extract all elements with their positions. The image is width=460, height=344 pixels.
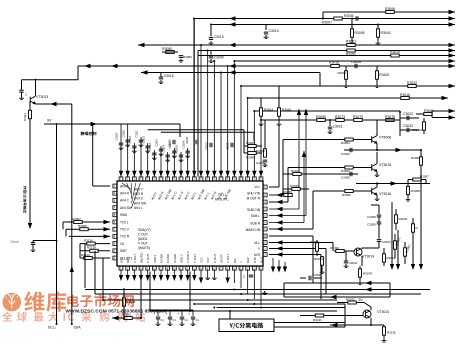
svg-text:TV2 R: TV2 R [120,235,130,239]
svg-text:R3060: R3060 [411,156,420,160]
resistor R3058 [407,186,410,194]
wire bus y98 [248,97,448,99]
pin top 14 [206,177,210,181]
ground under C3113 [145,149,150,153]
ground [209,41,214,45]
wire arrow into right pin y209 [276,207,283,211]
wire arrow into top pin 16 [219,171,223,177]
wire arrow 伴音 output [28,223,32,229]
wire [321,265,323,270]
svg-text:C3031: C3031 [349,261,358,265]
wire [244,145,262,147]
wire corner x78 [77,66,79,80]
resistor R3078 [359,269,362,277]
wire [278,86,280,108]
capacitor C3111 [139,140,143,142]
wire arrow TV2L [104,220,111,224]
wire arrow down bottom pin 12 [192,275,196,281]
resistor R3113 [84,257,92,260]
resistor R3008 [351,29,354,37]
junction [376,183,378,185]
wire fan leader [122,183,132,190]
wire top pin 4 vertical [140,137,142,177]
svg-text:9V: 9V [359,298,364,302]
wire VT3016 emitter [376,195,378,197]
junction [229,310,231,312]
svg-text:Y: Y [240,261,244,263]
ground under cap [19,96,24,100]
wire top pin 10 vertical [180,152,182,177]
wire [359,277,361,281]
wire arrow into top pin 15 [212,171,216,177]
pin top 8 [166,177,170,181]
svg-text:ADD 1: ADD 1 [180,254,184,263]
pin left 10 [113,249,117,253]
pin top 18 [232,177,236,181]
wire arrow down bottom pin 7 [159,275,163,281]
wire x80 [79,244,81,258]
wire right pin y215.5 [269,215,306,217]
svg-text:R3072: R3072 [346,297,355,301]
svg-text:M-L: M-L [233,258,237,263]
svg-text:C1: C1 [173,318,177,322]
resistor R3111 [29,110,32,118]
capacitor C3112 [152,153,156,155]
wire arrow [449,84,456,88]
svg-text:R3039: R3039 [290,184,299,188]
wire VT3015 emitter [376,171,378,173]
wire [269,186,279,188]
wire [278,126,280,187]
wire arrow [449,16,456,20]
svg-text:R3015: R3015 [282,108,291,112]
svg-text:VT3010: VT3010 [377,310,389,314]
junction [213,307,215,309]
junction [260,119,262,121]
wire [432,117,455,119]
svg-text:R3034: R3034 [387,256,396,260]
wire [399,111,401,136]
ground under C3117 [172,154,177,158]
svg-text:R3050: R3050 [342,193,351,197]
wire top pin 6 vertical [153,150,155,177]
svg-text:SDA: SDA [74,326,82,330]
ground [375,84,380,88]
resistor R3032 [408,85,416,88]
pin top 22 [259,177,263,181]
wire [160,73,162,78]
wire bus y61 [234,60,455,62]
wire bottom pin 11 stub [187,270,189,277]
wire arrow down x413 [411,264,415,270]
wire arrow 静噪控制 on rail [91,122,98,126]
junction [213,60,215,62]
wire [423,118,425,122]
ground [344,84,349,88]
wire vertical x306 [305,109,307,216]
svg-text:TV1 L: TV1 L [218,193,227,197]
svg-text:C3009: C3009 [214,56,224,60]
wire [162,51,178,53]
wire [325,249,327,295]
wire [432,111,455,114]
junction [193,303,195,305]
wire collect y297 [284,296,390,298]
pin bottom 5 [146,266,150,270]
wire arrow down bottom pin 10 [179,275,183,281]
wire [269,235,313,237]
pin top 9 [172,177,176,181]
wire bus y55 [198,55,455,57]
svg-text:SCL2: SCL2 [48,326,57,330]
svg-text:R3022: R3022 [291,169,300,173]
svg-text:R3036: R3036 [330,246,339,250]
wire [244,152,262,154]
pin bottom 1 [119,266,123,270]
wire [62,222,64,229]
svg-text:C3034: C3034 [382,240,391,244]
ground C30033 [31,248,36,252]
wire bottom pin 18 long [233,270,235,283]
svg-text:R3001: R3001 [346,40,356,44]
wire bottom pin 10 stub [180,270,182,277]
resistor R3036 [336,250,344,253]
junction [240,293,242,295]
pin bottom 20 [246,266,250,270]
resistor R3070 [354,119,362,122]
svg-text:C3112: C3112 [148,142,152,150]
svg-text:C3111: C3111 [135,130,139,138]
svg-text:VT3013: VT3013 [36,95,48,99]
pin bottom 15 [212,266,216,270]
wire arrow into top pin 5 [145,171,149,177]
resistor R3034 [383,254,386,262]
svg-text:C3013: C3013 [214,35,224,39]
capacitor C3017 [168,317,172,319]
wire top pin 16 vertical [220,73,222,177]
pin top 5 [146,177,150,181]
ground under C3119 [179,158,184,162]
wire [179,124,181,137]
junction [260,307,262,309]
wire VT3015 base line [288,167,372,169]
ground C3016 [156,322,161,326]
capacitor C3113 [145,146,149,148]
capacitor C3035 [350,172,352,176]
wire vertical x198 [197,51,199,177]
resistor R3050c [345,190,353,193]
svg-text:R3054: R3054 [310,240,319,244]
wire vertical x299 [298,109,300,209]
svg-text:SW7: SW7 [120,249,127,253]
junction [220,72,222,74]
junction [370,324,372,326]
pin left 5 [113,213,117,217]
pin right 4 [263,207,267,211]
junction [376,183,378,185]
wire arrow into top pin 13 [199,171,203,177]
ground under C3110 [159,152,164,156]
wire [319,73,321,87]
wire arrow [276,252,283,256]
wire [322,12,324,19]
wire C3019 lower [192,319,194,322]
svg-text:TV2 V: TV2 V [120,228,130,232]
wire bottom pin 19 long [240,270,242,288]
svg-text:TV2 L: TV2 L [120,220,129,224]
wire vertical x194 [193,19,195,177]
svg-text:C3113: C3113 [141,135,145,143]
pin top 2 [126,177,130,181]
junction [140,317,142,319]
wire [404,242,406,248]
wire C3018 [181,310,183,316]
svg-text:M-R: M-R [254,253,261,257]
svg-text:SUB R: SUB R [250,222,260,226]
junction [140,317,142,319]
ground [358,281,363,285]
wire loop left edge [283,283,285,297]
wire arrow [365,287,372,291]
wire [65,229,67,236]
svg-text:R3420: R3420 [379,73,389,77]
wire VT3013 collector [35,80,37,96]
wire top pin 1 vertical [120,124,122,177]
pin top 3 [132,177,136,181]
capacitor C3118 [119,143,123,145]
wire x92 down [92,124,94,186]
wire right pin y195 [269,194,283,196]
wire [21,80,23,90]
wire stub x279 [278,260,280,268]
junction [35,79,37,81]
resistor R3135 [383,327,386,335]
svg-text:C3115: C3115 [128,135,132,143]
wire out of Y/C box 2 [274,326,345,328]
wire bottom pin 1 stub [120,270,122,277]
wire arrow up x304 [302,151,306,157]
capacitor C3102 [231,143,233,147]
wire bottom pin 13 stub [200,270,202,279]
pin top 15 [212,177,216,181]
watermark logo 维库电子市场网 [3,291,167,314]
capacitor C3104 [173,140,175,144]
pin top 16 [219,177,223,181]
resistor R3061 [404,248,407,256]
wire 伴音 output line [29,119,31,224]
svg-text:V OUT: V OUT [133,254,137,263]
svg-text:R3070: R3070 [314,257,323,261]
pin left 4 [113,206,117,210]
pin left 8 [113,235,117,239]
junction SDA end [71,323,73,325]
svg-text:R3061: R3061 [405,243,412,253]
wire arrow into right pin y229 [276,227,283,231]
wire arrow TV2R [104,234,111,238]
junction [420,149,422,151]
svg-text:AV4 L: AV4 L [134,206,143,210]
wire top pin 20 vertical [247,98,249,177]
junction [227,65,229,67]
pin left 7 [113,227,117,231]
svg-text:C3050: C3050 [367,223,376,227]
svg-text:C3110: C3110 [186,136,189,144]
svg-text:C3118: C3118 [115,132,119,140]
capacitor C3018 [180,317,184,319]
ground under C3111 [139,143,144,147]
capacitor C3032 [407,128,409,132]
svg-text:+: + [189,312,191,316]
svg-text:S IN: S IN [253,257,257,263]
svg-text:R3020: R3020 [399,217,408,221]
wire x85 [84,244,86,288]
wire collect y311 [150,310,337,312]
resistor R3043 [377,29,380,37]
svg-text:+: + [178,312,180,316]
svg-text:R3005: R3005 [344,14,354,18]
wire bus y18 [194,18,455,20]
wire [394,234,396,241]
wire arrow into top pin 4 [139,171,143,177]
wire [391,202,393,264]
pin right 8 [263,234,267,238]
ground R3135 [382,339,387,343]
wire arrow into top pin 7 [159,171,163,177]
wire right pin y229 [269,228,313,230]
pin bottom 21 [252,266,256,270]
capacitor C3117 [172,151,176,153]
wire x95 [94,251,96,294]
wire [265,25,267,31]
wire bottom pin 22 long [260,270,262,305]
capacitor C3110 [159,149,163,151]
wire [112,317,141,319]
svg-text:R3073: R3073 [335,115,345,119]
junction [253,303,255,305]
wire bottom pin 17 stub [227,270,229,279]
capacitor C3114 [165,155,169,157]
ground bottom pin 14 [205,276,210,280]
svg-text:0 GND: 0 GND [173,253,177,263]
wire bottom pin 12 stub [193,270,195,277]
wire [377,25,379,29]
resistor R3001 [347,44,355,47]
wire arrow [442,96,449,100]
wire [300,277,306,279]
capacitor C3021 [328,127,332,129]
wire arrow [449,115,456,119]
wire [337,302,348,304]
wire feeder y129 [148,129,244,131]
wire y174 [283,173,358,175]
resistor R3029 [345,166,353,169]
ground under C3118 [119,146,124,150]
svg-text:OUT: OUT [260,257,264,264]
resistor R3008b [80,228,88,231]
svg-text:MAIN CIN: MAIN CIN [246,228,261,232]
wire [416,113,424,115]
resistor R3057 [413,178,421,181]
svg-text:R3131: R3131 [313,318,322,322]
svg-text:9V: 9V [47,119,52,123]
junction [247,299,249,301]
wire arrow [449,10,456,14]
wire collect y294 [95,293,421,295]
ground [264,35,269,39]
resistor R3066 [248,145,256,148]
resistor R3060a [345,71,348,79]
pin top 1 [119,177,123,181]
wire arrow down x273 [271,267,275,273]
svg-text:VT3019: VT3019 [362,255,374,259]
label 伴音信号输出 [23,186,27,213]
pin left 6 [113,220,117,224]
capacitor C3103 [210,143,212,147]
svg-text:R3016: R3016 [400,93,410,97]
wire arrow into right pin y222.5 [276,220,283,224]
resistor R3054 [345,138,353,141]
wire [32,244,34,248]
wire arrow into right pin y202 [276,200,283,204]
wire [395,223,397,230]
pin bottom 10 [179,266,183,270]
svg-text:R3008: R3008 [78,224,87,228]
label 静噪控制 [81,132,97,136]
capacitor C3016 [156,317,160,319]
wire arrow [419,264,423,270]
resistor R3020 [395,215,398,223]
wire arrow [390,264,394,270]
wire [260,98,262,108]
wire feeder corner x254 [253,132,255,141]
svg-text:C1: C1 [196,318,200,322]
wire arrow [365,281,372,285]
wire [312,236,314,283]
ground under C3112 [152,156,157,160]
wire [210,25,212,37]
block Y/C separator [219,319,274,332]
wire [376,79,378,84]
wire bottom pin 3 stub [133,270,135,277]
pin right 10 [263,247,267,251]
ground under C3114 [165,158,170,162]
svg-text:C3110: C3110 [155,138,159,146]
ground bottom pin 15 [212,276,217,280]
wire [395,209,397,215]
wire arrow into top pin 3 [132,171,136,177]
ground [179,59,184,63]
wire collect y307 [217,307,345,309]
transistor VT3010 [363,310,371,318]
wire top pin 15 vertical [213,61,215,177]
ground under C3109 [185,154,190,158]
wire x141 [140,272,142,319]
wire right pin y202 [269,201,288,203]
svg-text:C OUT: C OUT [146,254,150,264]
pin bottom 14 [206,266,210,270]
svg-text:WWW.DZSC.COM 0571-85036805 850: WWW.DZSC.COM 0571-85036805 85036806 [65,309,167,315]
wire arrow [112,316,119,320]
wire arrow [84,64,91,68]
svg-text:R3008: R3008 [355,31,365,35]
svg-text:SDA(V7): SDA(V7) [138,228,151,232]
wire top pin 5 vertical [147,143,149,177]
wire long vertical x71.8 [71,104,73,324]
svg-text:V ADD 2: V ADD 2 [186,251,190,263]
wire [431,114,433,118]
ground VT3016 emitter [375,197,380,201]
svg-text:C: C [25,93,27,97]
